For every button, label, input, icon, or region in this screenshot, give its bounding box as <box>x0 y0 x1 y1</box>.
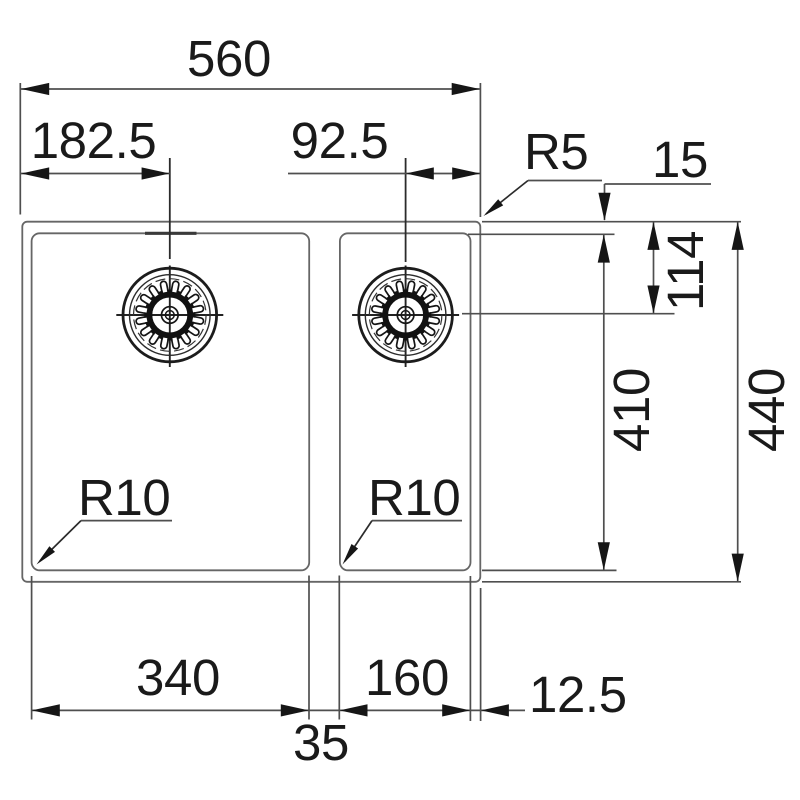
leader R10 left arrowhead <box>37 546 56 564</box>
drain strainer slot ring <box>171 281 179 293</box>
drain centre outer circle <box>397 307 414 324</box>
dimension line 440 <box>737 222 739 582</box>
right bowl outline <box>340 233 471 570</box>
drain gear ring <box>384 294 427 337</box>
extension below right bowl left edge <box>338 576 340 720</box>
leader R10 right diagonal <box>345 521 372 561</box>
drain crosshair horizontal centerline <box>116 314 223 316</box>
svg-text:R10: R10 <box>78 469 170 526</box>
svg-text:440: 440 <box>738 368 795 452</box>
extension of drain centre to the right <box>462 313 675 315</box>
svg-text:160: 160 <box>365 649 449 706</box>
extension below left bowl right edge <box>308 576 310 720</box>
svg-text:35: 35 <box>293 714 349 771</box>
drain crosshair vertical centerline <box>405 266 407 368</box>
leader R10 right arrowhead <box>343 544 359 565</box>
tap ledge tick on left bowl top edge <box>145 232 197 235</box>
bottom dimension line (340 / 35 / 160 / 12.5) <box>32 709 525 711</box>
extension below sink right edge <box>480 588 482 721</box>
left bowl outline <box>32 233 310 570</box>
drain centre inner circle <box>401 311 410 320</box>
right drain strainer <box>352 266 459 368</box>
centreline of left drain <box>169 158 171 259</box>
drain centre outer circle <box>162 307 179 324</box>
extension below right bowl right edge <box>469 576 471 721</box>
leader R5 arrowhead <box>484 199 504 216</box>
leader R5 shelf <box>528 180 602 182</box>
left drain strainer <box>116 266 223 368</box>
dimension line 410 (also lower arrow of 15) <box>603 235 605 570</box>
drain crosshair horizontal centerline <box>352 314 459 316</box>
extension below left bowl left edge <box>31 576 33 720</box>
drain outer rim circle <box>359 268 453 362</box>
extension of bowl top edge to the right <box>468 233 615 235</box>
svg-text:R10: R10 <box>368 469 460 526</box>
leader R10 left shelf <box>81 520 172 522</box>
dimension line 114 <box>653 222 655 314</box>
extension of sink top edge to the right <box>482 221 741 223</box>
leader R5 diagonal <box>486 181 528 215</box>
drain gear ring <box>148 294 191 337</box>
centreline of right drain <box>405 158 407 262</box>
svg-text:560: 560 <box>187 30 271 87</box>
dimension 15 shelf <box>605 183 712 185</box>
drain inner rim circle <box>365 275 446 356</box>
svg-text:R5: R5 <box>524 123 588 180</box>
drain outer rim circle <box>123 268 217 362</box>
extension line left of sink for 560/182.5 <box>19 83 21 215</box>
svg-text:182.5: 182.5 <box>31 112 157 169</box>
drain crosshair vertical centerline <box>169 266 171 368</box>
dimension line 182.5 <box>21 173 170 175</box>
svg-text:12.5: 12.5 <box>529 666 627 723</box>
svg-text:114: 114 <box>657 231 714 311</box>
dimension 15 upper arrow pointing down <box>604 184 606 220</box>
svg-text:340: 340 <box>136 649 220 706</box>
leader R10 right shelf <box>372 520 462 522</box>
drain strainer scalloped edge <box>134 279 207 352</box>
extension of sink bottom edge to the right <box>482 581 741 583</box>
svg-text:410: 410 <box>603 368 660 452</box>
extension of bowl bottom edge to the right <box>482 569 617 571</box>
sink outer outline <box>22 222 480 582</box>
dimension line 92.5 <box>288 173 480 175</box>
drain strainer scalloped edge <box>369 279 442 352</box>
svg-text:92.5: 92.5 <box>291 112 389 169</box>
extension line right of sink for 560 <box>479 83 481 217</box>
drain inner rim circle <box>130 275 211 356</box>
dimension line 560 <box>21 88 480 90</box>
drain centre inner circle <box>165 311 174 320</box>
drain strainer slot ring <box>407 281 415 293</box>
svg-text:15: 15 <box>652 131 708 188</box>
leader R10 left diagonal <box>40 521 81 561</box>
